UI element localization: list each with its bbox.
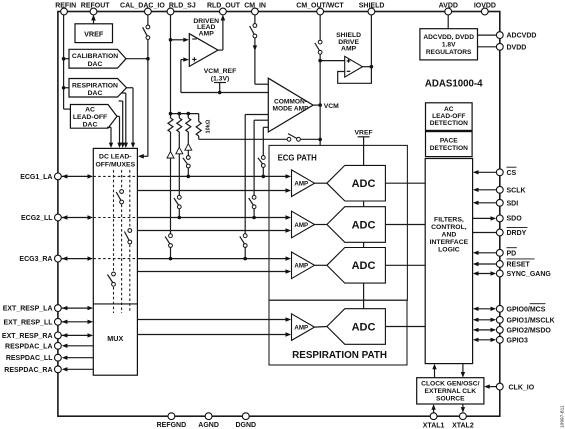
svg-text:COMMON-: COMMON- <box>274 98 307 105</box>
svg-text:RLD_OUT: RLD_OUT <box>207 2 241 9</box>
svg-text:SYNC_GANG: SYNC_GANG <box>507 271 552 278</box>
svg-text:AMP: AMP <box>341 46 357 53</box>
svg-text:ADCVDD: ADCVDD <box>507 33 537 40</box>
pin EXT_RESP_LL <box>3 318 61 326</box>
svg-text:SOURCE: SOURCE <box>436 395 465 402</box>
ECG path box <box>269 145 407 300</box>
wire PD row <box>473 251 497 255</box>
wire SCLK row <box>473 188 497 192</box>
switch column 1 to ECG3 row <box>165 234 172 259</box>
switch S1 inside DC box <box>116 190 123 204</box>
calibration DAC <box>69 49 126 68</box>
wire ECG1_LA pin row double arrow <box>62 174 94 178</box>
svg-text:RESPIRATION: RESPIRATION <box>72 82 118 89</box>
svg-text:GPIO0/MCS: GPIO0/MCS <box>507 306 546 313</box>
svg-text:DETECTION: DETECTION <box>430 120 468 127</box>
svg-text:GPIO1/MSCLK: GPIO1/MSCLK <box>507 317 555 324</box>
wire VCM vertical <box>318 59 322 146</box>
svg-text:LOGIC: LOGIC <box>438 247 460 254</box>
wire VREF to REFOUT with up arrow <box>91 15 96 24</box>
wire GPIO0 row <box>473 307 496 311</box>
svg-text:XTAL1: XTAL1 <box>423 422 445 429</box>
svg-text:AVDD: AVDD <box>439 2 458 9</box>
svg-text:SCLK: SCLK <box>507 187 526 194</box>
regulators box <box>420 29 478 60</box>
ADC2 <box>315 207 386 243</box>
svg-text:ADC: ADC <box>352 219 376 231</box>
wire ECG1 row <box>137 174 291 178</box>
pin GPIO1/MSCLK <box>496 316 554 324</box>
pin AGND <box>198 413 219 429</box>
AC lead-off DAC <box>70 105 117 129</box>
svg-text:SDI: SDI <box>507 200 519 207</box>
svg-text:CLK_IO: CLK_IO <box>509 385 535 392</box>
pin XTAL2 <box>452 413 474 429</box>
svg-text:EXT_RESP_RA: EXT_RESP_RA <box>2 333 53 340</box>
resistor column 3 <box>186 114 191 132</box>
VCM_REF source symbol <box>204 68 236 94</box>
wire ECG2_LL pin row double arrow <box>62 215 94 219</box>
pin XTAL1 <box>423 413 445 429</box>
pin CM_OUT/WCT <box>296 2 344 15</box>
switch S2 inside DC box <box>124 229 131 244</box>
svg-text:AMP: AMP <box>294 263 308 270</box>
wire SHIELD vertical <box>370 15 372 67</box>
svg-text:EXT_RESP_LA: EXT_RESP_LA <box>3 306 53 313</box>
package outline ADAS1000-4 boundary <box>58 12 500 417</box>
triangle tap column 2 <box>176 132 183 196</box>
wire EXT_RESP_LL pin row double arrow <box>62 320 94 324</box>
wire riser LA to common-mode amp with switch <box>258 127 268 176</box>
svg-text:DGND: DGND <box>235 422 256 429</box>
svg-text:VCM_REF: VCM_REF <box>204 68 236 75</box>
resistor 10k column 4 <box>196 114 201 140</box>
pin RESPDAC_RA <box>4 366 61 374</box>
pin CAL_DAC_IO <box>120 2 165 15</box>
wire AVDD to regulators <box>447 15 449 29</box>
wire ECG3_RA pin row double arrow <box>62 256 94 260</box>
wire VREF chain between ADCs <box>363 201 365 309</box>
pin PD <box>496 248 516 258</box>
pin RLD_SJ <box>167 2 196 15</box>
pin CM_IN <box>244 2 266 15</box>
wire riser RA to common-mode amp with switch <box>240 115 268 259</box>
wire CM_OUT/WCT with switch <box>315 15 322 61</box>
svg-text:REFGND: REFGND <box>157 422 187 429</box>
pin REFGND <box>157 413 187 429</box>
wire riser LL to common-mode amp with switch <box>249 120 269 217</box>
wire SYNC_GANG row <box>473 271 496 275</box>
svg-text:DETECTION: DETECTION <box>430 145 468 152</box>
wire ADC outputs to filters <box>385 183 425 326</box>
op-amp AMP1 <box>292 170 315 197</box>
switch column 3 to ECG1 row <box>183 156 190 177</box>
svg-text:AND: AND <box>442 232 457 239</box>
wires DAC outputs down into DC lead-off box (5 arrows) <box>107 88 135 148</box>
driven lead amp U-RLD <box>189 18 219 67</box>
wire common-mode amp output to VCM node <box>313 103 322 107</box>
svg-text:REFOUT: REFOUT <box>81 2 111 9</box>
svg-text:(1.3V): (1.3V) <box>211 75 230 82</box>
wire GPIO1 row <box>473 318 496 322</box>
pin GPIO0/MCS <box>496 304 545 314</box>
switch column 2 to ECG2 row <box>174 195 181 217</box>
svg-text:ECG2_LL: ECG2_LL <box>21 215 53 222</box>
wire filters to clock down arrow <box>461 364 465 378</box>
DC lead-off muxes box <box>93 148 137 375</box>
svg-text:RESPDAC_RA: RESPDAC_RA <box>4 367 52 374</box>
pin SYNC_GANG <box>496 270 551 278</box>
svg-text:10kΩ: 10kΩ <box>206 119 212 133</box>
svg-text:VREF: VREF <box>84 30 104 39</box>
wire clock box to XTAL2 down arrow <box>461 404 465 413</box>
svg-text:VREF: VREF <box>355 129 373 136</box>
wire driven lead amp output to RLD_OUT <box>218 15 225 51</box>
svg-text:ADCVDD, DVDD: ADCVDD, DVDD <box>423 34 474 41</box>
svg-text:RESPDAC_LA: RESPDAC_LA <box>5 343 52 350</box>
pin DGND <box>235 413 256 429</box>
svg-text:RESPIRATION PATH: RESPIRATION PATH <box>292 350 387 361</box>
pin RESPDAC_LA <box>5 342 61 350</box>
pin ECG2_LL <box>21 214 61 222</box>
wire RLD_SJ to amp minus input <box>171 38 189 42</box>
wire regulators to ADCVDD pin <box>478 34 497 36</box>
pace detection box <box>426 132 473 157</box>
svg-text:DC LEAD-: DC LEAD- <box>99 154 131 161</box>
dashed rows inside DC box <box>93 176 137 258</box>
svg-text:PACE: PACE <box>440 137 458 144</box>
wire GPIO3 row <box>473 338 496 342</box>
svg-text:DAC: DAC <box>83 121 98 128</box>
switch S3 inside DC box <box>108 272 116 286</box>
svg-text:10997-811: 10997-811 <box>560 405 565 428</box>
pin EXT_RESP_LA <box>3 305 62 313</box>
pin RESET <box>496 259 534 269</box>
wire SDO row <box>473 216 497 220</box>
svg-text:VCM: VCM <box>324 103 339 110</box>
ADC3 <box>315 248 386 284</box>
wire RESPDAC_LL pin row <box>62 356 94 360</box>
svg-text:RESPDAC_LL: RESPDAC_LL <box>6 355 53 362</box>
svg-text:CALIBRATION: CALIBRATION <box>72 53 118 60</box>
ADC4 respiration <box>315 309 386 345</box>
AC lead-off detection box <box>426 103 473 131</box>
svg-text:ADC: ADC <box>352 260 376 272</box>
svg-text:INTERFACE: INTERFACE <box>430 239 469 246</box>
pin ADCVDD <box>496 32 536 40</box>
shield drive amp <box>336 32 362 77</box>
svg-text:CM_OUT/WCT: CM_OUT/WCT <box>296 2 344 9</box>
dashed columns inside DC box <box>114 170 130 313</box>
svg-text:AMP: AMP <box>199 30 215 37</box>
wire shield amp output and feedback <box>338 65 374 83</box>
wire clock to filters up arrow <box>432 364 436 378</box>
op-amp AMP2 <box>292 211 315 238</box>
wire VCM to shield amp plus input <box>320 60 345 62</box>
svg-text:MUX: MUX <box>107 334 123 343</box>
svg-text:MODE AMP: MODE AMP <box>272 106 309 113</box>
op-amp AMP3 <box>292 252 315 279</box>
pin ECG3_RA <box>19 255 61 263</box>
pin DRDY <box>496 227 527 237</box>
svg-text:EXT_RESP_LL: EXT_RESP_LL <box>3 319 53 326</box>
wire SDI row <box>473 201 497 205</box>
pin SDO <box>496 215 522 223</box>
svg-text:LEAD-OFF: LEAD-OFF <box>432 113 465 120</box>
wire EXT_RESP_RA pin row double arrow <box>62 333 94 337</box>
svg-text:DAC: DAC <box>88 61 103 68</box>
svg-text:CONTROL,: CONTROL, <box>431 224 467 231</box>
pin RESPDAC_LL <box>6 354 61 362</box>
pin ECG1_LA <box>20 173 61 181</box>
VREF rail symbol <box>355 129 373 165</box>
wire REFIN vertical <box>62 15 71 109</box>
pin CLK_IO <box>496 383 534 391</box>
clock gen box <box>417 378 484 404</box>
svg-text:AGND: AGND <box>198 422 219 429</box>
pin DVDD <box>496 43 526 51</box>
wire ECG3 ref row <box>137 269 291 273</box>
svg-text:DAC: DAC <box>88 90 103 97</box>
pin SCLK <box>496 186 525 194</box>
wire MUX to respiration amp row 2 <box>137 332 291 336</box>
wire 10k to VCM with switch <box>199 134 320 142</box>
wire VCM_REF rail to common-mode amp <box>181 92 268 94</box>
wire CS row <box>473 170 497 174</box>
wire XTAL1 to clock box up arrow <box>431 404 435 413</box>
pin REFIN <box>55 2 76 15</box>
triangle tap column 3 <box>185 132 192 156</box>
svg-text:PD: PD <box>507 250 517 257</box>
svg-text:EXTERNAL CLK: EXTERNAL CLK <box>425 388 477 395</box>
wire ECG1 ref row <box>137 188 291 192</box>
pin SHIELD <box>359 2 385 15</box>
respiration DAC <box>69 79 127 98</box>
respiration path box <box>269 300 407 365</box>
svg-text:RLD_SJ: RLD_SJ <box>169 2 196 9</box>
wire ECG2 ref row <box>137 228 291 232</box>
svg-text:RESET: RESET <box>507 262 531 269</box>
svg-text:XTAL2: XTAL2 <box>452 422 474 429</box>
resistor column 2 <box>177 114 182 132</box>
resistor column 1 <box>168 118 173 132</box>
op-amp AMP4 respiration <box>292 314 315 341</box>
svg-text:CS: CS <box>507 170 517 177</box>
switch CAL_DAC_IO <box>143 15 150 57</box>
wire CM_IN with switch and down arrow <box>250 15 269 84</box>
svg-text:SDO: SDO <box>507 216 523 223</box>
common-mode amp <box>268 78 313 132</box>
svg-text:CLOCK GEN/OSC/: CLOCK GEN/OSC/ <box>421 381 479 388</box>
wire lead-off top rail <box>171 112 199 116</box>
pin CS <box>496 167 516 177</box>
pin EXT_RESP_RA <box>2 332 61 340</box>
pin IOVDD <box>474 2 496 15</box>
pin REFOUT <box>81 2 111 15</box>
svg-text:REGULATORS: REGULATORS <box>426 49 472 56</box>
svg-text:AMP: AMP <box>294 222 308 229</box>
svg-text:FILTERS,: FILTERS, <box>434 217 464 224</box>
svg-text:GPIO3: GPIO3 <box>507 337 529 344</box>
svg-text:GPIO2/MSDO: GPIO2/MSDO <box>507 328 552 335</box>
svg-text:AC: AC <box>85 107 95 114</box>
wire DRDY row <box>473 232 497 234</box>
wire RESET row <box>473 262 497 266</box>
wire CAL DAC output to CAL_DAC_IO node <box>126 57 150 61</box>
wire ECG2 row <box>137 215 291 219</box>
svg-text:DVDD: DVDD <box>507 44 527 51</box>
wire EXT_RESP_LA pin row double arrow <box>62 306 94 310</box>
wire amp plus input from VCM_REF <box>181 57 189 92</box>
wire regulators to DVDD pin <box>478 46 497 48</box>
svg-text:CAL_DAC_IO: CAL_DAC_IO <box>120 2 165 9</box>
pin RLD_OUT <box>207 2 241 15</box>
wire MUX to respiration amp row 1 <box>137 317 291 321</box>
wire CLK_IO to clock box <box>484 384 496 388</box>
svg-text:SHIELD: SHIELD <box>359 2 385 9</box>
svg-text:AC: AC <box>444 106 454 113</box>
wire ECG3 row <box>137 256 291 260</box>
svg-text:DRDY: DRDY <box>507 230 527 237</box>
svg-text:AMP: AMP <box>294 324 308 331</box>
pin GPIO2/MSDO <box>496 327 551 335</box>
wire RESPDAC_RA pin row <box>62 367 94 371</box>
svg-text:AMP: AMP <box>294 181 308 188</box>
filters control interface logic box <box>425 159 472 364</box>
svg-text:ECG3_RA: ECG3_RA <box>19 256 52 263</box>
VREF box <box>75 24 113 43</box>
svg-text:ADC: ADC <box>352 321 376 333</box>
svg-text:IOVDD: IOVDD <box>474 2 496 9</box>
svg-text:ADAS1000-4: ADAS1000-4 <box>425 78 483 89</box>
svg-text:REFIN: REFIN <box>55 2 76 9</box>
wire RLD_SJ vertical <box>169 15 173 118</box>
pin SDI <box>496 199 518 207</box>
wire CAL line down into DC lead-off box <box>138 59 148 159</box>
svg-text:ECG PATH: ECG PATH <box>278 154 317 163</box>
wire GPIO2 row <box>473 328 496 332</box>
ADC1 <box>315 165 386 201</box>
pin GPIO3 <box>496 336 528 344</box>
svg-text:1.8V: 1.8V <box>442 41 456 48</box>
triangle tap column 1 <box>167 132 174 234</box>
svg-text:ADC: ADC <box>352 178 376 190</box>
wire RESPDAC_LA pin row <box>62 344 94 348</box>
svg-text:OFF/MUXES: OFF/MUXES <box>95 161 135 168</box>
pin AVDD <box>439 2 458 15</box>
svg-text:LEAD-OFF: LEAD-OFF <box>73 114 107 121</box>
svg-text:CM_IN: CM_IN <box>244 2 266 9</box>
svg-text:ECG1_LA: ECG1_LA <box>20 174 52 181</box>
